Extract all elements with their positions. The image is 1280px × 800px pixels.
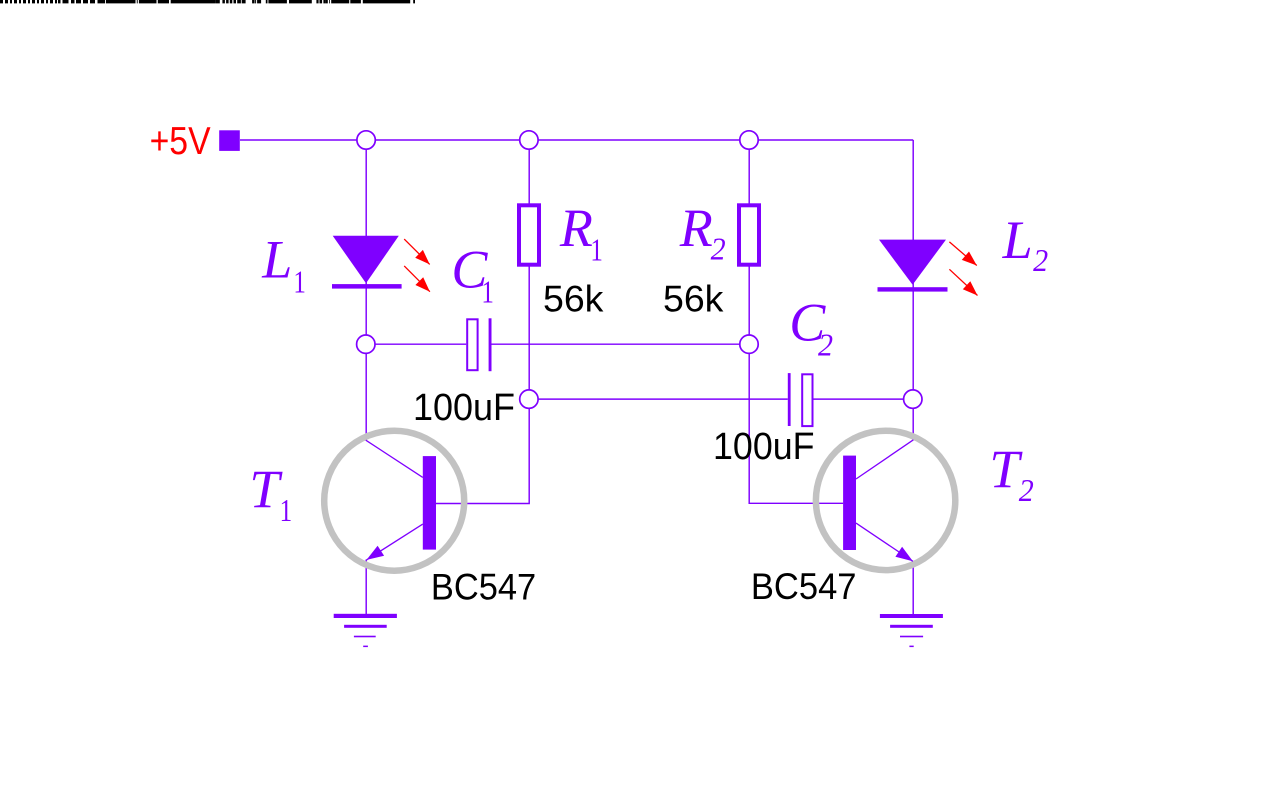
wire: C2 row right segment — [814, 398, 914, 400]
node G (C2 / L2 / T2 collector) — [904, 390, 922, 408]
node D (L1 cathode / C1 / T1 collector) — [357, 335, 375, 353]
clipped text strip at top edge — [0, 0, 415, 3]
svg-text:T: T — [249, 459, 283, 519]
LED L2 triangle (anode) — [879, 240, 946, 285]
resistor R2 body — [739, 205, 759, 264]
wire: R2 bottom to T2 base — [749, 266, 843, 503]
+5V terminal square — [219, 130, 240, 151]
svg-text:1: 1 — [280, 492, 293, 528]
svg-text:100uF: 100uF — [713, 426, 815, 468]
svg-text:2: 2 — [1033, 242, 1048, 278]
wire: R1 bottom to T1 base — [436, 266, 529, 504]
LED L2 cathode bar — [878, 287, 948, 291]
svg-text:1: 1 — [590, 232, 603, 268]
transistor T2 collector lead — [856, 440, 913, 479]
transistor T2 emitter lead — [856, 523, 913, 561]
resistor R1 body — [519, 205, 539, 264]
wire: L1/T1 collector column — [365, 140, 367, 440]
transistor T1 emitter arrowhead — [367, 546, 385, 560]
wire: T2 emitter to ground — [912, 561, 914, 615]
svg-text:L: L — [261, 230, 292, 290]
svg-text:L: L — [1002, 210, 1033, 270]
svg-text:R: R — [559, 198, 593, 258]
wire: L2/T2 collector column — [912, 140, 914, 440]
LED L1 cathode bar — [332, 284, 402, 289]
svg-text:R: R — [679, 198, 713, 258]
svg-text:+5V: +5V — [150, 120, 211, 163]
transistor T1 collector lead — [366, 440, 423, 477]
LED L1 light arrow 1 — [404, 239, 430, 264]
ground under T1 — [334, 614, 397, 647]
wire: C2 row left segment from E node — [529, 398, 788, 400]
wire: +5V top rail — [240, 139, 913, 141]
ground under T2 — [880, 614, 943, 647]
svg-text:100uF: 100uF — [413, 387, 515, 429]
node E (R1 / C2 / T1 base) — [520, 390, 538, 408]
wire: T1 emitter to ground — [365, 560, 367, 615]
svg-text:56k: 56k — [543, 278, 604, 319]
capacitor C1 right plate (bar) — [489, 318, 492, 371]
LED L1 triangle (anode) — [333, 236, 399, 283]
svg-text:1: 1 — [293, 263, 306, 299]
transistor T1 emitter lead — [367, 524, 423, 560]
svg-text:2: 2 — [1019, 472, 1034, 508]
svg-text:1: 1 — [481, 274, 494, 310]
transistor T2 circle — [816, 431, 955, 570]
wire: C1 row left segment — [366, 343, 466, 345]
transistor T1 circle — [324, 431, 464, 571]
LED L2 light arrow 2 — [949, 269, 977, 295]
node B (rail / R1) — [520, 131, 538, 149]
svg-text:56k: 56k — [663, 278, 724, 319]
LED L1 light arrow 2 — [404, 266, 430, 292]
wire: R2 top lead — [748, 140, 750, 204]
wire: R1 top lead — [528, 140, 530, 204]
capacitor C1 left plate (box) — [467, 319, 477, 370]
capacitor C2 left plate (bar) — [788, 373, 791, 426]
svg-text:BC547: BC547 — [751, 565, 857, 607]
LED L2 light arrow 1 — [949, 242, 976, 266]
transistor T2 base bar — [843, 456, 856, 550]
wire: C1 row right segment to R2 node — [492, 343, 750, 345]
transistor T1 base bar — [423, 456, 436, 549]
node A (rail / L1) — [357, 131, 375, 149]
node F (R2 / C1 / T2 base) — [740, 335, 758, 353]
svg-text:2: 2 — [711, 231, 726, 267]
capacitor C2 right plate (box) — [802, 374, 812, 426]
transistor T2 emitter arrowhead — [895, 547, 913, 562]
node C (rail / R2) — [740, 131, 758, 149]
svg-text:BC547: BC547 — [431, 565, 536, 607]
svg-text:2: 2 — [818, 326, 833, 362]
